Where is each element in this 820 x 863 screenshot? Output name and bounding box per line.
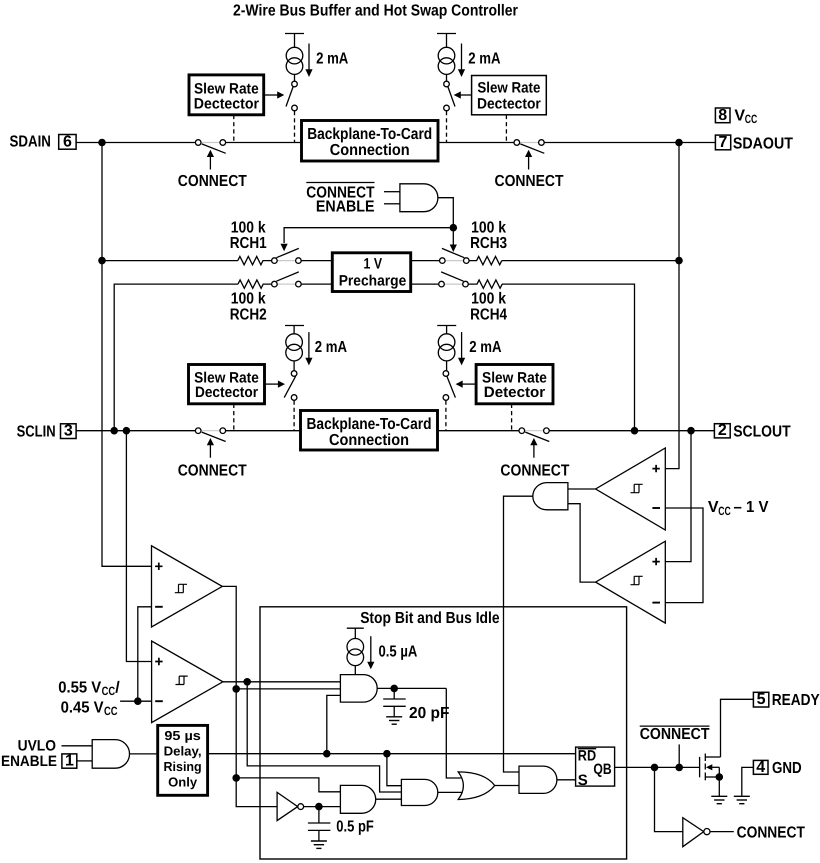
node RCH1 row left junction: [98, 257, 106, 265]
label CONNECT-bar (gate): [640, 726, 710, 743]
capacitor 0.5 pF: [308, 807, 331, 841]
svg-text:100 k: 100 k: [471, 220, 506, 237]
arrow CONNECT to SDA right switch: [525, 150, 532, 170]
node Q1 source/body: [716, 773, 724, 781]
minus input U-L1: [155, 606, 163, 608]
box Backplane-To-Card Connection (SDA): [302, 121, 439, 162]
switch RCH2: [272, 272, 302, 287]
wire ENABLE stub: [77, 760, 92, 762]
ground 20 pF: [386, 717, 402, 724]
node RCH4 junction on SCLOUT: [631, 427, 639, 435]
svg-text:Connection: Connection: [330, 142, 410, 159]
label VCC - 1 V: [708, 499, 769, 518]
node delay junction AND3: [383, 750, 391, 758]
svg-text:GND: GND: [772, 760, 802, 777]
wire RCH4 from precharge box: [411, 283, 439, 285]
wire SDA bus from backplane box: [438, 142, 514, 144]
switch CS (SCL right): [443, 371, 455, 401]
svg-text:Connection: Connection: [329, 432, 409, 449]
svg-text:– 1 V: – 1 V: [734, 499, 769, 516]
wire AND1 output to OR gate: [446, 688, 461, 778]
svg-text:Only: Only: [168, 775, 198, 790]
wire RCH1 switch open (gray): [274, 260, 298, 262]
hysteresis symbol U-L1: [175, 584, 187, 592]
svg-text:1: 1: [65, 752, 74, 769]
ground 0.5 pF: [311, 841, 327, 848]
wire AND3 output to OR: [438, 791, 462, 793]
svg-text:4: 4: [756, 759, 765, 776]
arrow CONNECT to SCL left switch: [207, 438, 214, 458]
plus input U-R2: [652, 558, 659, 565]
svg-text:95 µs: 95 µs: [164, 728, 201, 743]
comparator U-R1 (right top): [596, 448, 666, 530]
svg-text:Delay,: Delay,: [164, 744, 202, 759]
box 1 V Precharge: [332, 253, 410, 292]
switch CS (SCL left): [284, 371, 297, 401]
wire SDAIN vertical to comparator: [102, 143, 152, 567]
pin 8 box: [715, 107, 730, 124]
pin 5 box: [753, 691, 768, 708]
svg-text:Dectector: Dectector: [195, 384, 258, 401]
svg-text:Slew Rate: Slew Rate: [477, 80, 540, 97]
switch SCL card-side: [519, 428, 549, 442]
wire SDA switch open (gray): [198, 142, 223, 144]
wire dashed CS switch to SDA bus (left): [294, 111, 296, 143]
plus input U-L1: [155, 563, 162, 570]
wire AND4 output to flip-flop S: [557, 779, 576, 781]
svg-text:8: 8: [718, 107, 727, 124]
wire delay branch to AND3: [387, 754, 402, 786]
wire U-L1 output down: [222, 586, 277, 806]
svg-text:CC: CC: [104, 704, 118, 718]
current source 2mA (SCL left): [285, 326, 304, 371]
pin VCC label: [734, 108, 757, 127]
flip-flop RD/S/QB box: [576, 747, 615, 789]
svg-text:100 k: 100 k: [231, 291, 266, 308]
wire dashed slew box to SCL bus: [233, 404, 235, 431]
wire connect-enable output: [438, 198, 453, 224]
box Stop Bit and Bus Idle: [260, 607, 627, 859]
node U-L1 output to AND1: [232, 685, 240, 693]
svg-text:100 k: 100 k: [231, 220, 266, 237]
node U-L1 branch to AND2: [232, 774, 240, 782]
node SCLOUT junction: [687, 427, 695, 435]
wire RCH1 row left: [102, 260, 238, 262]
svg-text:0.5 pF: 0.5 pF: [336, 818, 374, 835]
svg-text:SCLIN: SCLIN: [17, 424, 56, 441]
wire U-L2 branch down to AND3: [247, 682, 401, 792]
node RCH1 row right junction: [675, 257, 683, 265]
wire SCL switch open right (gray): [522, 430, 547, 432]
wire RCH3 switch open (gray): [442, 260, 466, 262]
svg-text:2 mA: 2 mA: [469, 339, 502, 356]
wire SCL bus from backplane box: [438, 430, 520, 432]
node SDAOUT junction: [675, 139, 683, 147]
wire UVLO gate output: [130, 753, 158, 755]
svg-text:0.55 V: 0.55 V: [58, 680, 101, 697]
comparator U-L1 (left top): [152, 546, 223, 627]
current source 2mA (SDA left): [285, 34, 304, 82]
wire VCC-1V reference: [665, 508, 703, 603]
arrow 2 mA (SCL right): [458, 332, 465, 365]
wire SCLOUT vertical to comparator: [665, 431, 691, 562]
arrow CONNECT to SCL right switch: [530, 438, 537, 458]
wire RCH3 row right: [502, 260, 679, 262]
node QB to inverter: [651, 764, 659, 772]
wire dashed CS switch to SCL bus (left): [293, 401, 295, 431]
svg-text:QB: QB: [593, 761, 611, 778]
svg-text:RCH2: RCH2: [230, 307, 267, 324]
arrow slew detector to CS switch (SCL left): [265, 381, 286, 388]
wire connect line to left: [284, 228, 449, 243]
arrow 2 mA (SCL left): [305, 332, 312, 365]
and-gate AND3: [401, 779, 437, 805]
switch RCH3: [440, 248, 470, 263]
wire U-RA output down to AND4: [504, 496, 533, 772]
box Slew Rate Detector (SCL right): [476, 365, 553, 404]
ground Q1 source: [711, 796, 727, 803]
wire SDA bus to backplane box: [226, 142, 302, 144]
svg-text:0.45 V: 0.45 V: [61, 699, 104, 716]
inverter INV2 connect output: [683, 818, 710, 847]
wire Q1 drain to READY: [721, 699, 754, 757]
svg-text:20 pF: 20 pF: [409, 705, 450, 722]
arrow connect to RCH3 switch: [450, 232, 457, 253]
svg-text:100 k: 100 k: [471, 291, 506, 308]
and-gate AND2: [340, 785, 375, 813]
wire RCH2 row left with corner: [114, 284, 238, 431]
hysteresis symbol U-R2: [631, 576, 643, 584]
node AND1 output cap junction: [390, 685, 398, 693]
and-gate U-UVLO: [92, 740, 129, 769]
resistor RCH1: [238, 256, 272, 264]
arrow 2 mA (SDA right): [458, 44, 465, 78]
svg-text:V: V: [734, 108, 745, 125]
current source 2mA (SDA right): [437, 34, 456, 82]
node SDAIN junction: [98, 139, 106, 147]
svg-text:2 mA: 2 mA: [316, 51, 349, 68]
switch CS (SDA right): [444, 81, 455, 111]
pin 3 box: [61, 423, 77, 440]
svg-text:Dectector: Dectector: [194, 95, 259, 112]
pin 1 box: [62, 752, 77, 769]
wire SDA switch open right (gray): [517, 142, 542, 144]
svg-text:SCLOUT: SCLOUT: [733, 424, 791, 441]
wire GND pin to ground: [742, 767, 754, 796]
minus input U-L2: [155, 700, 163, 702]
wire 0.55/0.45 reference: [120, 700, 152, 702]
wire RCH1 to precharge box: [301, 260, 332, 262]
pin 2 box: [714, 422, 730, 439]
svg-text:CONNECT: CONNECT: [495, 173, 564, 190]
box Backplane-To-Card Connection (SCL): [301, 411, 438, 451]
wire SCL switch open (gray): [198, 430, 223, 432]
inverter INV1: [277, 792, 304, 820]
svg-text:3: 3: [64, 423, 73, 440]
box Slew Rate Dectector (SCL left): [189, 365, 265, 404]
comparator U-L2 (left bottom): [152, 641, 223, 723]
wire AND2 output to AND3: [376, 798, 402, 800]
wire SDAOUT vertical to comparator: [665, 143, 679, 469]
svg-text:0.5 µA: 0.5 µA: [379, 643, 418, 660]
node SCLIN junction comparator: [123, 427, 131, 435]
svg-text:7: 7: [719, 134, 728, 151]
wire SDAIN bus left: [76, 142, 195, 144]
hysteresis symbol U-L2: [176, 676, 188, 684]
svg-text:CONNECT: CONNECT: [737, 824, 805, 841]
wire SCLIN vertical to comparator: [126, 431, 151, 662]
and-gate U-RA (mirrored, bus idle): [533, 483, 568, 510]
node QB to connect label: [675, 764, 683, 772]
ground GND pin: [734, 796, 750, 803]
switch SDA card-side: [514, 140, 544, 154]
svg-text:V: V: [708, 499, 719, 516]
svg-text:6: 6: [63, 133, 72, 150]
wire dashed slew box to SCL bus (right): [511, 404, 513, 431]
wire RCH2 to precharge box: [301, 283, 332, 285]
wire connect-bar label to QB line: [678, 744, 680, 767]
wire OR1 output to AND4: [495, 785, 519, 787]
node connect line junction: [450, 224, 458, 232]
arrow 0.5 uA: [367, 636, 374, 669]
wire branch to AND2 input: [236, 778, 340, 792]
label 0.45 VCC: [61, 699, 118, 718]
svg-text:CC: CC: [745, 112, 758, 126]
arrow slew detector to CS switch (SDA left): [264, 91, 285, 98]
wire connect-enable input stubs: [384, 192, 400, 204]
switch SDA backplane-side: [195, 140, 225, 154]
node INV1 output cap junction: [315, 803, 323, 811]
and-gate AND1 stop bit: [340, 675, 377, 703]
svg-text:Detector: Detector: [484, 384, 546, 401]
pin 7 box: [715, 134, 730, 151]
switch RCH1: [272, 248, 302, 263]
box Slew Rate Dectector (SDA right): [472, 76, 547, 115]
wire RCH4 row right with corner: [502, 284, 635, 427]
hysteresis symbol U-R1: [631, 484, 643, 492]
wire SCL bus to SCLOUT: [549, 430, 714, 432]
switch CS (SDA left): [286, 81, 297, 111]
wire dashed CS switch to SCL bus (right): [445, 401, 447, 431]
plus input U-L2: [155, 658, 162, 665]
wire RCH4 switch open (gray): [442, 283, 466, 285]
svg-text:SDAIN: SDAIN: [10, 133, 51, 150]
wire SCLIN bus left: [76, 430, 195, 432]
wire delay line to flip-flop: [208, 753, 576, 755]
svg-text:Precharge: Precharge: [339, 272, 407, 289]
svg-text:ENABLE: ENABLE: [316, 199, 375, 216]
wire UVLO stub: [62, 745, 93, 747]
svg-text:SDAOUT: SDAOUT: [733, 135, 793, 152]
and-gate AND4: [519, 766, 557, 793]
node U-L2 output branch: [243, 678, 251, 686]
node delay junction AND1: [323, 750, 331, 758]
svg-text:RCH1: RCH1: [230, 235, 267, 252]
wire U-L2 output to AND1: [223, 681, 341, 683]
svg-text:CONNECT: CONNECT: [178, 462, 247, 479]
svg-text:ENABLE: ENABLE: [1, 753, 57, 770]
svg-text:CONNECT: CONNECT: [500, 462, 569, 479]
wire U-R1 output to and gate: [568, 488, 596, 490]
svg-text:READY: READY: [772, 692, 820, 709]
comparator U-R2 (right bottom): [596, 541, 666, 623]
box Slew Rate Dectector (SDA left): [189, 75, 264, 115]
wire RCH2 switch open (gray): [274, 283, 298, 285]
and-gate U-CE connect enable: [400, 184, 438, 212]
svg-text:RCH4: RCH4: [470, 307, 507, 324]
minus input U-R2: [652, 602, 660, 604]
wire QB to inverter INV2: [655, 767, 683, 831]
arrow CONNECT to SDA left switch: [207, 150, 214, 170]
wire comp1 line into box AND1: [236, 688, 340, 690]
plus input U-R1: [652, 465, 659, 472]
capacitor 20 pF: [383, 688, 406, 716]
svg-text:CC: CC: [718, 504, 731, 518]
wire reference to U-L1 minus: [138, 607, 152, 701]
label CONNECT-bar ENABLE: [306, 183, 374, 216]
svg-text:5: 5: [757, 691, 766, 708]
current source 0.5uA: [347, 628, 364, 674]
resistor RCH4: [468, 280, 502, 288]
node SCLIN junction RCH2: [110, 427, 118, 435]
current source 2mA (SCL right): [437, 326, 456, 371]
wire RCH3 from precharge box: [411, 260, 440, 262]
switch SCL backplane-side: [195, 428, 225, 442]
node reference junction: [134, 697, 142, 705]
minus input U-R1: [652, 507, 660, 509]
label 0.55 VCC/: [58, 680, 120, 699]
wire U-R2 output to and gate: [568, 504, 596, 582]
pin 4 box: [753, 759, 768, 776]
wire AND1 output: [377, 687, 446, 689]
resistor RCH2: [238, 280, 272, 288]
arrow 2 mA (SDA left): [305, 44, 312, 78]
svg-text:Dectector: Dectector: [477, 95, 541, 112]
arrow connect to RCH1 switch: [281, 244, 288, 252]
svg-text:2 mA: 2 mA: [468, 51, 501, 68]
resistor RCH3: [469, 256, 502, 264]
svg-text:2: 2: [718, 422, 727, 439]
wire INV2 output: [710, 831, 734, 833]
wire INV1 output to AND2: [304, 806, 341, 808]
wire dashed CS switch to SDA bus (right): [446, 111, 448, 143]
svg-text:S: S: [578, 772, 588, 789]
svg-text:1 V: 1 V: [364, 256, 383, 273]
wire dashed slew box to SDA bus: [233, 115, 235, 143]
switch RCH4: [439, 272, 469, 287]
svg-text:2 mA: 2 mA: [315, 339, 348, 356]
svg-text:Backplane-To-Card: Backplane-To-Card: [307, 416, 432, 433]
svg-text:CONNECT: CONNECT: [178, 173, 247, 190]
svg-text:Stop Bit and Bus Idle: Stop Bit and Bus Idle: [360, 610, 499, 627]
svg-text:2-Wire Bus Buffer and Hot Swap: 2-Wire Bus Buffer and Hot Swap Controlle…: [233, 3, 518, 20]
svg-text:Backplane-To-Card: Backplane-To-Card: [307, 126, 432, 143]
or-gate OR1: [458, 772, 495, 800]
transistor Q1 ready pulldown: [700, 754, 721, 797]
svg-text:Rising: Rising: [164, 759, 202, 774]
svg-text:/: /: [115, 680, 120, 697]
pin 6 box: [59, 133, 76, 150]
arrow slew detector to CS switch (SCL right): [456, 381, 477, 388]
wire SDA bus to SDAOUT: [544, 142, 715, 144]
wire QB output to gate: [615, 766, 700, 768]
svg-text:CONNECT: CONNECT: [640, 726, 710, 743]
arrow slew detector to CS switch (SDA right): [454, 91, 472, 98]
wire AND1 third input from delay line: [327, 695, 341, 753]
wire SCL bus to backplane box: [226, 430, 301, 432]
svg-text:CC: CC: [102, 684, 116, 698]
wire dashed slew box to SDA bus (right): [505, 115, 507, 143]
svg-text:RCH3: RCH3: [470, 235, 507, 252]
box 95us Delay Rising Only: [158, 725, 208, 795]
